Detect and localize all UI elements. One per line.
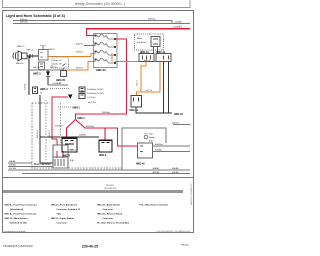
node HMS-1 split right bbox=[76, 120, 106, 141]
svg-text:Wedge: Wedge bbox=[149, 137, 155, 139]
svg-text:41A Red: 41A Red bbox=[102, 111, 110, 114]
horn H1 bbox=[13, 51, 27, 61]
svg-text:F10—Main Harness Terminal: F10—Main Harness Terminal bbox=[140, 204, 169, 207]
wire orange horn relay to switch bbox=[48, 54, 96, 57]
svg-text:VDC: VDC bbox=[57, 214, 62, 216]
svg-text:HMC-4: HMC-4 bbox=[40, 88, 48, 91]
svg-text:40A Blk: 40A Blk bbox=[79, 133, 86, 136]
header rule box bbox=[3, 0, 191, 8]
svg-text:40A Blk: 40A Blk bbox=[175, 20, 182, 23]
horn relay K1 bbox=[39, 46, 49, 70]
svg-text:Connector: Connector bbox=[57, 222, 68, 225]
svg-text:Bulb: Bulb bbox=[149, 140, 153, 142]
svg-text:Connector: Connector bbox=[103, 217, 114, 220]
svg-text:MX23528 -UN-05AUG10: MX23528 -UN-05AUG10 bbox=[190, 184, 193, 205]
legend column 3 bbox=[97, 204, 129, 225]
connector ticks bbox=[30, 54, 32, 58]
wire red battery feed bbox=[87, 29, 191, 36]
double rule bbox=[3, 189, 184, 191]
C-6 connector stack bbox=[53, 145, 68, 168]
svg-text:40B Yel: 40B Yel bbox=[76, 52, 83, 54]
svg-text:TM102315 (15JUN10): TM102315 (15JUN10) bbox=[3, 244, 33, 248]
park brake switch S2 bbox=[79, 87, 85, 99]
tail lamp assembly bbox=[138, 134, 153, 159]
wire horn to relay bbox=[27, 55, 39, 57]
legend column 1 bbox=[5, 204, 38, 225]
svg-text:40A Blk: 40A Blk bbox=[172, 167, 179, 170]
node HMS-1 split left bbox=[67, 120, 76, 139]
svg-text:Key Switch: Key Switch bbox=[137, 41, 147, 44]
svg-text:40B Yel: 40B Yel bbox=[33, 67, 40, 69]
svg-text:HMC-10: HMC-10 bbox=[174, 113, 184, 116]
svg-text:HMS-1b: HMS-1b bbox=[16, 63, 24, 65]
svg-text:Wiring Schematics (SN 060001-: Wiring Schematics (SN 060001- ) bbox=[75, 2, 125, 6]
stub 40A Yel bbox=[84, 45, 96, 47]
svg-text:40A Blk: 40A Blk bbox=[24, 83, 27, 90]
legend column 4 bbox=[140, 204, 169, 207]
svg-text:40C Or: 40C Or bbox=[146, 90, 153, 92]
svg-text:HMS-1: HMS-1 bbox=[78, 118, 86, 120]
svg-text:Switched 12 VDC: Switched 12 VDC bbox=[10, 222, 27, 225]
svg-text:40A Blk: 40A Blk bbox=[9, 160, 16, 163]
svg-text:16: 16 bbox=[40, 92, 42, 94]
svg-text:40A Blk: 40A Blk bbox=[155, 148, 162, 151]
svg-text:Blade,: Blade, bbox=[137, 38, 143, 40]
svg-text:HMT-4: HMT-4 bbox=[49, 49, 56, 51]
svg-text:40B Or: 40B Or bbox=[144, 60, 150, 62]
svg-text:HMC-40: HMC-40 bbox=[136, 163, 145, 166]
svg-text:40B Blk: 40B Blk bbox=[172, 172, 179, 174]
connector HMC-1b bbox=[156, 54, 171, 62]
diode D1 bbox=[45, 70, 50, 85]
svg-text:(+) 40A Blk: (+) 40A Blk bbox=[52, 82, 62, 85]
svg-text:Connector, Switched 12: Connector, Switched 12 bbox=[57, 208, 81, 211]
svg-text:HMC-20: HMC-20 bbox=[96, 68, 106, 72]
svg-text:40A Org: 40A Org bbox=[20, 18, 27, 21]
svg-text:Light and Horn Schematic (3 of: Light and Horn Schematic (3 of 4) bbox=[6, 14, 66, 18]
svg-text:Continued on next page: Continued on next page bbox=[4, 230, 27, 233]
svg-text:(+) 12 Volt: (+) 12 Volt bbox=[87, 96, 96, 99]
svg-text:Brake On: Brake On bbox=[53, 60, 61, 62]
legend column 2 bbox=[51, 204, 81, 225]
svg-text:HMC-36—Reverse Switch: HMC-36—Reverse Switch bbox=[97, 213, 123, 216]
svg-text:MX23528: MX23528 bbox=[106, 185, 114, 187]
wire orange switch to HMC-1a bbox=[115, 62, 160, 93]
svg-text:(Unswitched): (Unswitched) bbox=[10, 208, 23, 211]
svg-text:40C Blk: 40C Blk bbox=[9, 168, 16, 170]
svg-text:Park Brake Off (NC): Park Brake Off (NC) bbox=[87, 88, 104, 91]
headlight connector HMC-9 bbox=[98, 140, 112, 152]
wire 40B Yel run bbox=[29, 69, 64, 71]
relay HMR-1 label bbox=[58, 106, 71, 108]
svg-text:HMR-1: HMR-1 bbox=[73, 108, 81, 110]
svg-text:F5—Main Harness Terminal (B+): F5—Main Harness Terminal (B+) bbox=[97, 222, 129, 225]
wire 40A Blk lamp bbox=[153, 151, 191, 153]
svg-text:40B Blk: 40B Blk bbox=[9, 165, 16, 167]
svg-text:UN-05AUG10: UN-05AUG10 bbox=[104, 187, 116, 190]
svg-text:41B Red: 41B Red bbox=[86, 126, 94, 128]
ground wires bottom bbox=[8, 162, 32, 164]
svg-text:HMC-B—Front Power Connector: HMC-B—Front Power Connector bbox=[5, 213, 37, 216]
switch glyph bbox=[63, 64, 66, 67]
red pin stubs C-6 bbox=[57, 151, 63, 158]
svg-text:41B Yel: 41B Yel bbox=[76, 68, 83, 70]
svg-text:41A Red: 41A Red bbox=[48, 131, 51, 138]
schematic frame bbox=[3, 11, 194, 233]
Main Harness dashed box bbox=[32, 103, 122, 168]
svg-text:HMS-1a: HMS-1a bbox=[17, 46, 25, 48]
brake note dashed box bbox=[52, 57, 69, 68]
wires HMC-1b black drops bbox=[164, 62, 169, 114]
svg-text:Brake Off: Brake Off bbox=[53, 64, 62, 66]
svg-text:41A Red: 41A Red bbox=[55, 124, 63, 127]
wire 40B Org top bbox=[13, 22, 190, 24]
svg-text:40A Grn: 40A Grn bbox=[172, 122, 179, 125]
svg-text:HMC-9: HMC-9 bbox=[99, 155, 107, 157]
wire 40A Wht bbox=[153, 145, 191, 147]
switch pins bbox=[95, 35, 116, 64]
dashed link bbox=[50, 88, 70, 90]
svg-text:HMC-1: HMC-1 bbox=[27, 50, 34, 52]
svg-text:Main Harness: Main Harness bbox=[34, 162, 51, 166]
fuse F1 bbox=[151, 37, 160, 54]
wire horn ground drop bbox=[28, 56, 30, 95]
svg-text:OUO1035,0002267 -19-23AUG10-3/: OUO1035,0002267 -19-23AUG10-3/4 bbox=[156, 230, 191, 233]
svg-text:PN=305: PN=305 bbox=[181, 244, 189, 246]
svg-text:a=(2) Pin: a=(2) Pin bbox=[88, 102, 96, 104]
connector HMC-4 bbox=[33, 87, 38, 94]
wire orange brake to switch bbox=[64, 62, 96, 71]
svg-text:40A Blk: 40A Blk bbox=[153, 167, 160, 170]
wire black HMC-1a out bbox=[136, 107, 172, 113]
wire diode out bbox=[48, 84, 68, 86]
svg-text:HMC-A—Front Power Connector,: HMC-A—Front Power Connector, bbox=[5, 204, 38, 207]
light switch U1 HMC-20 bbox=[94, 34, 118, 68]
svg-text:40B Blk: 40B Blk bbox=[153, 172, 160, 174]
connector HMC-34 bbox=[139, 54, 154, 62]
svg-text:HMC-3: HMC-3 bbox=[33, 72, 41, 75]
svg-text:HMC-35—Brake Switch: HMC-35—Brake Switch bbox=[97, 204, 121, 207]
svg-text:Connector: Connector bbox=[103, 208, 114, 211]
headlight connector HMC-8 bbox=[61, 138, 77, 152]
connector HMC-1a bbox=[131, 96, 142, 108]
svg-text:40B Or: 40B Or bbox=[137, 79, 139, 86]
svg-text:40C Yel: 40C Yel bbox=[50, 67, 57, 69]
svg-text:HMC-10—Main Harness,: HMC-10—Main Harness, bbox=[5, 217, 29, 220]
brake switch connector bbox=[61, 68, 67, 77]
header running title bbox=[75, 2, 125, 6]
svg-text:40A Org: 40A Org bbox=[148, 18, 155, 21]
svg-text:40B Org: 40B Org bbox=[20, 22, 27, 24]
diode D2 bbox=[68, 95, 73, 99]
dash-dot verticals bbox=[45, 100, 47, 160]
svg-text:HMC-35: HMC-35 bbox=[56, 79, 66, 82]
svg-text:HMC-1a: HMC-1a bbox=[130, 110, 139, 112]
svg-text:HMC-P—Front Attachment: HMC-P—Front Attachment bbox=[51, 204, 77, 207]
svg-text:HMC-a: HMC-a bbox=[70, 149, 77, 151]
wire black headlight bus bbox=[40, 95, 99, 163]
wire red horn relay feed bbox=[52, 97, 68, 145]
orange jumper inside switch bbox=[111, 54, 113, 62]
wire 40A Org top bbox=[13, 21, 190, 24]
svg-text:HMC-G—Lights Switch: HMC-G—Lights Switch bbox=[51, 217, 74, 220]
svg-text:230-40-25: 230-40-25 bbox=[82, 244, 98, 248]
wire red switch output bbox=[76, 39, 127, 120]
svg-text:Park Brake On (NO): Park Brake On (NO) bbox=[87, 92, 104, 95]
wire red to tail lamp bbox=[105, 128, 138, 146]
wire 40A Grn bbox=[173, 124, 190, 126]
svg-text:40A Yel: 40A Yel bbox=[76, 43, 83, 46]
fuse dashed note box bbox=[135, 34, 164, 50]
svg-text:40A Black: 40A Black bbox=[36, 129, 39, 138]
svg-text:Qty 2: Qty 2 bbox=[149, 133, 153, 136]
svg-text:40A Wht: 40A Wht bbox=[155, 143, 163, 146]
wire orange 40B Or vertical bbox=[137, 62, 161, 96]
